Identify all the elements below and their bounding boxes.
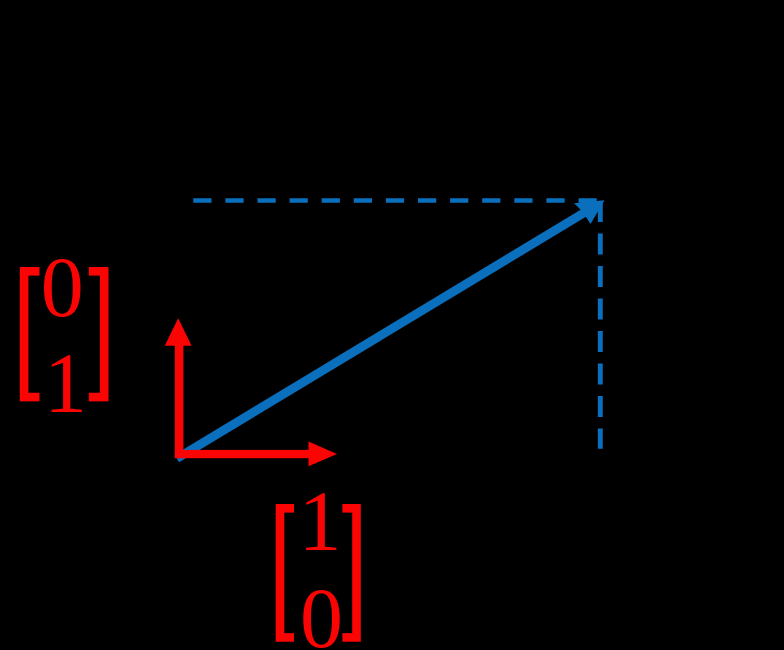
- red x-axis shaft: [175, 450, 309, 458]
- dashed horizontal guide (blue): [193, 198, 606, 203]
- label [0;1] left bracket: [20, 267, 40, 401]
- label [1;0] right bracket: [342, 504, 360, 642]
- label [1;0] left bracket: [276, 504, 294, 642]
- red x-axis arrowhead: [309, 442, 338, 467]
- svg-text:0: 0: [300, 570, 343, 650]
- svg-text:1: 1: [299, 473, 342, 569]
- label [0;1] right bracket: [89, 267, 109, 401]
- dashed vertical guide (blue): [598, 201, 603, 449]
- svg-text:0: 0: [41, 239, 84, 335]
- blue vector shaft: [177, 211, 587, 459]
- red y-axis shaft: [175, 345, 184, 458]
- red y-axis arrowhead: [165, 318, 192, 346]
- blue vector arrowhead: [574, 200, 605, 224]
- svg-text:1: 1: [44, 335, 87, 431]
